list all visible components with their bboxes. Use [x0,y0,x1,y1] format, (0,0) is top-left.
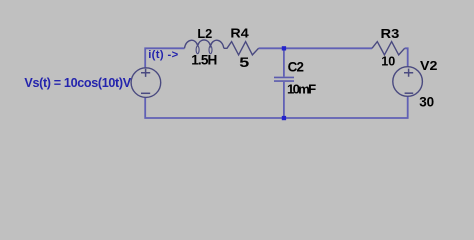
svg-text:1.5H: 1.5H [191,53,216,68]
source Vs circle [131,68,161,98]
svg-text:V2: V2 [420,58,437,73]
source V2 circle [393,67,423,97]
inductor L2 loop 2 [209,46,212,54]
Vs minus sign [141,92,150,94]
resistor R4 [224,42,259,55]
wire: top rail between R4 and R3 [259,47,373,49]
svg-text:10: 10 [381,55,395,69]
svg-text:L2: L2 [197,27,212,41]
svg-text:R3: R3 [381,27,400,41]
svg-text:30: 30 [419,94,434,110]
capacitor C2 plates [274,77,294,81]
svg-text:10mF: 10mF [287,82,316,97]
inductor L2 loop 1 [196,46,199,54]
svg-text:R4: R4 [230,27,248,41]
junction dot bottom [282,116,286,120]
inductor L2 [185,40,224,48]
Vs plus sign [141,69,150,77]
wire: capacitor upper stub [283,48,285,76]
resistor R3 [372,42,405,55]
V2 plus sign [404,69,413,77]
svg-text:Vs(t) = 10cos(10t)V: Vs(t) = 10cos(10t)V [24,76,131,90]
svg-text:i(t) ->: i(t) -> [148,49,178,61]
junction dot top (node A) [282,46,286,50]
wire: capacitor lower stub [283,82,285,118]
svg-text:5: 5 [239,54,249,70]
wire: bottom rail [145,96,408,118]
svg-text:C2: C2 [288,60,304,75]
wire: top-left corner from Vs top up and right to inductor [145,48,184,68]
wire: top-right corner from R3 end down to V2 top [405,48,408,67]
V2 minus sign [405,92,414,94]
